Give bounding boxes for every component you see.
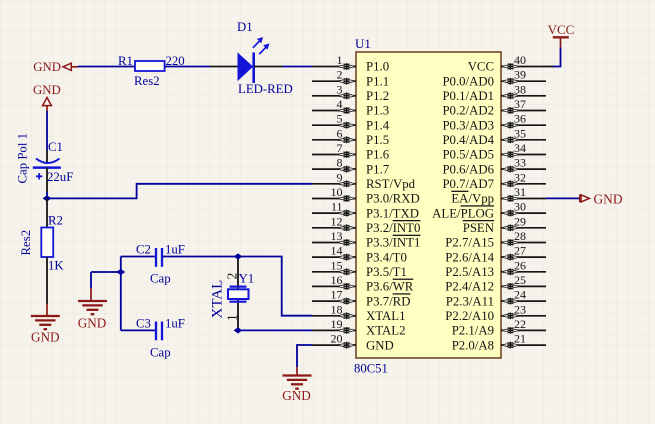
svg-text:38: 38 bbox=[514, 82, 526, 96]
svg-text:17: 17 bbox=[331, 288, 343, 302]
svg-text:P3.4/T0: P3.4/T0 bbox=[366, 250, 407, 264]
pin 32 P0.7/AD7 bbox=[442, 170, 546, 191]
wire C1 to node A bbox=[46, 168, 48, 199]
svg-text:20: 20 bbox=[331, 332, 343, 346]
svg-text:22: 22 bbox=[514, 317, 526, 331]
svg-text:21: 21 bbox=[514, 332, 526, 346]
svg-text:P3.0/RXD: P3.0/RXD bbox=[366, 192, 420, 206]
pin 21 P2.0/A8 bbox=[452, 332, 546, 353]
crystal Y1 bbox=[228, 287, 249, 302]
svg-text:32: 32 bbox=[514, 170, 526, 184]
svg-text:5: 5 bbox=[337, 112, 343, 126]
pin 5 P1.4 bbox=[312, 112, 390, 133]
pin 3 P1.2 bbox=[312, 82, 389, 103]
svg-text:1uF: 1uF bbox=[165, 243, 185, 257]
power port GND (left arrow) bbox=[33, 60, 78, 74]
svg-text:27: 27 bbox=[514, 244, 526, 258]
pin 37 P0.2/AD2 bbox=[442, 97, 546, 118]
svg-text:31: 31 bbox=[514, 185, 526, 199]
value Cap (C2) bbox=[150, 272, 171, 286]
pin 35 P0.4/AD4 bbox=[442, 126, 546, 147]
svg-text:P0.0/AD0: P0.0/AD0 bbox=[442, 74, 494, 88]
svg-text:Y1: Y1 bbox=[239, 272, 255, 286]
svg-text:C2: C2 bbox=[136, 243, 151, 257]
pin 27 P2.6/A14 bbox=[445, 244, 546, 265]
wire crystal top to XTAL1 pin 18 bbox=[238, 257, 312, 316]
svg-text:29: 29 bbox=[514, 214, 526, 228]
svg-text:GND: GND bbox=[366, 338, 394, 352]
pin 19 XTAL2 bbox=[312, 317, 406, 338]
value 1K bbox=[48, 259, 64, 273]
pin 40 VCC bbox=[468, 53, 546, 74]
resistor R2 bbox=[41, 228, 53, 258]
pin 29 PSEN bbox=[463, 214, 546, 235]
svg-text:11: 11 bbox=[331, 200, 343, 214]
svg-text:24: 24 bbox=[514, 288, 526, 302]
svg-text:39: 39 bbox=[514, 68, 526, 82]
designator D1 bbox=[237, 20, 253, 34]
svg-text:23: 23 bbox=[514, 302, 526, 316]
svg-text:26: 26 bbox=[514, 258, 526, 272]
pin 11 P3.1/TXD bbox=[312, 200, 419, 221]
svg-text:P2.7/A15: P2.7/A15 bbox=[445, 236, 494, 250]
designator C2 bbox=[136, 243, 151, 257]
svg-text:P0.2/AD2: P0.2/AD2 bbox=[442, 104, 494, 118]
svg-text:36: 36 bbox=[514, 112, 526, 126]
junction crystal top bbox=[234, 253, 243, 259]
pin 31 EA/Vpp bbox=[451, 185, 546, 206]
pin 26 P2.5/A13 bbox=[445, 258, 546, 279]
resistor R1 bbox=[135, 61, 165, 71]
pin 33 P0.6/AD6 bbox=[442, 156, 546, 177]
svg-text:P1.4: P1.4 bbox=[366, 118, 390, 132]
svg-text:P3.6/WR: P3.6/WR bbox=[366, 280, 414, 294]
svg-text:P3.2/INT0: P3.2/INT0 bbox=[366, 221, 420, 235]
svg-text:37: 37 bbox=[514, 97, 526, 111]
pin 7 P1.6 bbox=[312, 141, 390, 162]
svg-text:U1: U1 bbox=[355, 36, 371, 51]
pin 13 P3.3/INT1 bbox=[312, 229, 420, 250]
pin 12 P3.2/INT0 bbox=[312, 214, 420, 235]
svg-text:12: 12 bbox=[331, 214, 343, 228]
wire node B to GND bbox=[91, 272, 121, 301]
pin 22 P2.1/A9 bbox=[452, 317, 546, 338]
svg-text:7: 7 bbox=[337, 141, 343, 155]
value Res2 bbox=[134, 74, 160, 88]
designator C1 bbox=[48, 140, 63, 154]
value Res2 (vertical) bbox=[19, 230, 33, 256]
svg-text:80C51: 80C51 bbox=[354, 362, 388, 376]
pin 28 P2.7/A15 bbox=[445, 229, 546, 250]
svg-text:18: 18 bbox=[331, 302, 343, 316]
svg-text:1uF: 1uF bbox=[165, 317, 185, 331]
svg-text:VCC: VCC bbox=[468, 60, 494, 74]
ground (below pin 20) bbox=[282, 376, 311, 403]
pin 30 ALE/PLOG bbox=[432, 200, 546, 221]
svg-text:Cap Pol 1: Cap Pol 1 bbox=[16, 133, 30, 183]
designator Y1 bbox=[239, 272, 255, 286]
svg-text:GND: GND bbox=[594, 192, 623, 207]
svg-text:GND: GND bbox=[282, 388, 311, 403]
svg-text:4: 4 bbox=[337, 97, 343, 111]
power port GND (up arrow above C1) bbox=[33, 83, 61, 111]
ground (middle, C2/C3) bbox=[78, 301, 107, 330]
svg-text:Res2: Res2 bbox=[19, 230, 33, 256]
pin 18 XTAL1 bbox=[312, 302, 406, 323]
wire bus to C2 bbox=[121, 256, 155, 258]
svg-text:GND: GND bbox=[78, 315, 107, 330]
wire crystal bottom to XTAL2 pin 19 bbox=[238, 329, 312, 331]
value XTAL (vertical) bbox=[210, 280, 226, 319]
svg-text:28: 28 bbox=[514, 229, 526, 243]
wire bus to C3 bbox=[121, 329, 155, 331]
svg-text:ALE/PLOG: ALE/PLOG bbox=[432, 206, 494, 220]
svg-text:19: 19 bbox=[331, 317, 343, 331]
value 1uF (C2) bbox=[165, 243, 185, 257]
svg-text:XTAL1: XTAL1 bbox=[366, 309, 406, 323]
svg-text:C3: C3 bbox=[136, 317, 151, 331]
svg-text:XTAL: XTAL bbox=[210, 280, 226, 319]
svg-text:GND: GND bbox=[31, 329, 60, 344]
value Cap (C3) bbox=[150, 346, 171, 360]
wire GND arrow to R1 bbox=[78, 66, 135, 68]
wire D1 to pin 1 bbox=[254, 66, 312, 68]
svg-text:P1.5: P1.5 bbox=[366, 133, 389, 147]
pin 10 P3.0/RXD bbox=[312, 185, 420, 206]
svg-text:1: 1 bbox=[337, 53, 343, 67]
svg-text:P2.5/A13: P2.5/A13 bbox=[445, 265, 494, 279]
svg-text:1: 1 bbox=[225, 314, 240, 321]
wire R2 to GND bbox=[46, 257, 48, 316]
wire C2/C3 left bus bbox=[120, 257, 122, 331]
svg-text:16: 16 bbox=[331, 273, 343, 287]
svg-text:8: 8 bbox=[337, 156, 343, 170]
capacitor C1 (polarized) bbox=[33, 159, 61, 180]
pin 38 P0.1/AD1 bbox=[442, 82, 546, 103]
svg-text:25: 25 bbox=[514, 273, 526, 287]
pin 25 P2.4/A12 bbox=[445, 273, 546, 294]
value 1uF (C3) bbox=[165, 317, 185, 331]
pin 39 P0.0/AD0 bbox=[442, 68, 546, 89]
pin 4 P1.3 bbox=[312, 97, 389, 118]
wire GND to C1 bbox=[46, 111, 48, 162]
pin number 2 (Y1) bbox=[225, 273, 240, 280]
wire VCC to pin 40 bbox=[546, 48, 561, 67]
svg-text:P2.1/A9: P2.1/A9 bbox=[452, 324, 494, 338]
svg-text:P0.4/AD4: P0.4/AD4 bbox=[442, 133, 494, 147]
svg-text:1K: 1K bbox=[48, 259, 64, 273]
svg-text:P3.1/TXD: P3.1/TXD bbox=[366, 206, 419, 220]
svg-text:P2.3/A11: P2.3/A11 bbox=[446, 294, 494, 308]
power port GND (right arrow) bbox=[580, 192, 623, 207]
svg-text:40: 40 bbox=[514, 53, 526, 67]
svg-text:Cap: Cap bbox=[150, 272, 171, 286]
svg-text:XTAL2: XTAL2 bbox=[366, 324, 406, 338]
svg-text:EA/Vpp: EA/Vpp bbox=[451, 192, 494, 206]
junction crystal bottom bbox=[234, 327, 243, 333]
svg-text:VCC: VCC bbox=[548, 22, 575, 37]
svg-text:15: 15 bbox=[331, 258, 343, 272]
svg-text:P0.7/AD7: P0.7/AD7 bbox=[442, 177, 494, 191]
value LED-RED bbox=[238, 82, 293, 96]
svg-text:PSEN: PSEN bbox=[463, 221, 494, 235]
svg-text:P3.5/T1: P3.5/T1 bbox=[366, 265, 407, 279]
svg-text:RST/Vpd: RST/Vpd bbox=[366, 177, 416, 191]
pin 20 GND bbox=[312, 332, 394, 353]
svg-text:P1.2: P1.2 bbox=[366, 89, 389, 103]
pin 8 P1.7 bbox=[312, 156, 390, 177]
value 22uF bbox=[47, 170, 73, 184]
value Cap Pol 1 (vertical) bbox=[16, 133, 30, 183]
pin 17 P3.7/RD bbox=[312, 288, 410, 309]
svg-text:P1.3: P1.3 bbox=[366, 104, 389, 118]
power port VCC bbox=[548, 22, 575, 48]
svg-text:P0.5/AD5: P0.5/AD5 bbox=[442, 148, 494, 162]
svg-text:10: 10 bbox=[331, 185, 343, 199]
designator R1 bbox=[118, 54, 133, 68]
svg-text:D1: D1 bbox=[237, 20, 253, 34]
pin 15 P3.5/T1 bbox=[312, 258, 407, 279]
pin 2 P1.1 bbox=[312, 68, 389, 89]
wire R1 to D1 bbox=[165, 66, 238, 68]
wire crystal pins (vertical) bbox=[237, 257, 239, 331]
svg-text:P2.0/A8: P2.0/A8 bbox=[452, 338, 494, 352]
pin 34 P0.5/AD5 bbox=[442, 141, 546, 162]
svg-text:P1.1: P1.1 bbox=[366, 74, 389, 88]
IC U1 80C51 body bbox=[356, 52, 501, 358]
pin 9 RST/Vpd bbox=[312, 170, 416, 191]
pin 14 P3.4/T0 bbox=[312, 244, 407, 265]
wire C2 to crystal top bbox=[163, 256, 238, 258]
capacitor C3 bbox=[156, 322, 162, 341]
svg-text:Cap: Cap bbox=[150, 346, 171, 360]
part name 80C51 bbox=[354, 362, 388, 376]
pin 23 P2.2/A10 bbox=[445, 302, 546, 323]
svg-text:P2.2/A10: P2.2/A10 bbox=[445, 309, 494, 323]
pin 36 P0.3/AD3 bbox=[442, 112, 546, 133]
svg-text:22uF: 22uF bbox=[47, 170, 73, 184]
svg-text:LED-RED: LED-RED bbox=[238, 82, 293, 96]
designator C3 bbox=[136, 317, 151, 331]
pin 6 P1.5 bbox=[312, 126, 389, 147]
svg-text:GND: GND bbox=[33, 83, 61, 97]
svg-text:3: 3 bbox=[337, 82, 343, 96]
svg-text:P3.7/RD: P3.7/RD bbox=[366, 294, 410, 308]
pin 16 P3.6/WR bbox=[312, 273, 414, 294]
svg-text:2: 2 bbox=[337, 68, 343, 82]
LED D1 bbox=[238, 37, 270, 83]
svg-text:P0.1/AD1: P0.1/AD1 bbox=[442, 89, 494, 103]
pin 24 P2.3/A11 bbox=[446, 288, 546, 309]
svg-text:33: 33 bbox=[514, 156, 526, 170]
svg-text:P0.6/AD6: P0.6/AD6 bbox=[442, 162, 494, 176]
svg-text:P1.6: P1.6 bbox=[366, 148, 390, 162]
svg-text:P2.4/A12: P2.4/A12 bbox=[445, 280, 494, 294]
svg-text:35: 35 bbox=[514, 126, 526, 140]
svg-text:14: 14 bbox=[331, 244, 343, 258]
pin 1 P1.0 bbox=[312, 53, 389, 74]
svg-text:6: 6 bbox=[337, 126, 343, 140]
svg-text:P1.7: P1.7 bbox=[366, 162, 390, 176]
svg-text:R2: R2 bbox=[48, 214, 63, 228]
svg-text:2: 2 bbox=[225, 273, 240, 280]
svg-text:13: 13 bbox=[331, 229, 343, 243]
wire node A to RST pin 9 bbox=[47, 184, 312, 199]
svg-text:P3.3/INT1: P3.3/INT1 bbox=[366, 236, 420, 250]
wire pin 20 to GND bbox=[297, 345, 312, 376]
svg-text:P1.0: P1.0 bbox=[366, 60, 389, 74]
svg-text:P0.3/AD3: P0.3/AD3 bbox=[442, 118, 494, 132]
pin number 1 (Y1) bbox=[225, 314, 240, 321]
svg-text:C1: C1 bbox=[48, 140, 63, 154]
svg-text:GND: GND bbox=[33, 60, 61, 74]
svg-text:Res2: Res2 bbox=[134, 74, 160, 88]
capacitor C2 bbox=[156, 248, 162, 267]
svg-text:P2.6/A14: P2.6/A14 bbox=[445, 250, 494, 264]
svg-text:9: 9 bbox=[337, 170, 343, 184]
svg-text:R1: R1 bbox=[118, 54, 133, 68]
designator U1 bbox=[355, 36, 371, 51]
svg-text:34: 34 bbox=[514, 141, 526, 155]
svg-text:30: 30 bbox=[514, 200, 526, 214]
designator R2 bbox=[48, 214, 63, 228]
wire node A to R2 bbox=[46, 198, 48, 227]
value 220 bbox=[166, 54, 185, 68]
wire pin 31 to GND arrow bbox=[546, 197, 579, 199]
junction node A (C1/R2/RST) bbox=[43, 195, 52, 201]
junction node B (bus/GND tap) bbox=[116, 269, 125, 275]
ground (below R2) bbox=[31, 316, 60, 344]
